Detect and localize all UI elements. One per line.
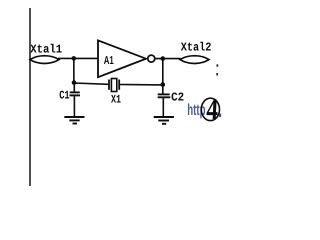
wire	[58, 57, 99, 59]
crystal X1	[109, 79, 119, 92]
wire	[73, 95, 75, 117]
node colon mark	[216, 64, 218, 75]
svg-text:X1: X1	[111, 93, 121, 106]
wire	[120, 84, 163, 86]
terminal Xtal2	[180, 56, 209, 64]
terminal Xtal1	[30, 56, 59, 64]
capacitor C2	[158, 94, 171, 97]
svg-text:4: 4	[206, 93, 219, 126]
wire	[74, 83, 108, 84]
wire	[162, 97, 164, 117]
ground	[154, 117, 174, 124]
capacitor C1	[70, 92, 81, 95]
figure number 4	[201, 93, 219, 126]
inverter A1	[98, 40, 155, 77]
wire	[73, 58, 75, 83]
ground	[64, 117, 84, 124]
svg-text:C2: C2	[171, 91, 184, 105]
junction C	[72, 80, 77, 85]
junction D	[161, 82, 166, 87]
watermark http	[187, 102, 221, 119]
svg-text:A1: A1	[104, 55, 114, 67]
svg-text:C1: C1	[59, 88, 69, 102]
wire	[73, 83, 75, 93]
junction A	[72, 56, 77, 61]
wire	[162, 85, 164, 95]
wire	[155, 58, 181, 60]
svg-text:Xtal1: Xtal1	[30, 42, 62, 56]
wire	[162, 59, 164, 85]
svg-text:Xtal2: Xtal2	[181, 41, 212, 55]
junction B	[161, 56, 166, 61]
